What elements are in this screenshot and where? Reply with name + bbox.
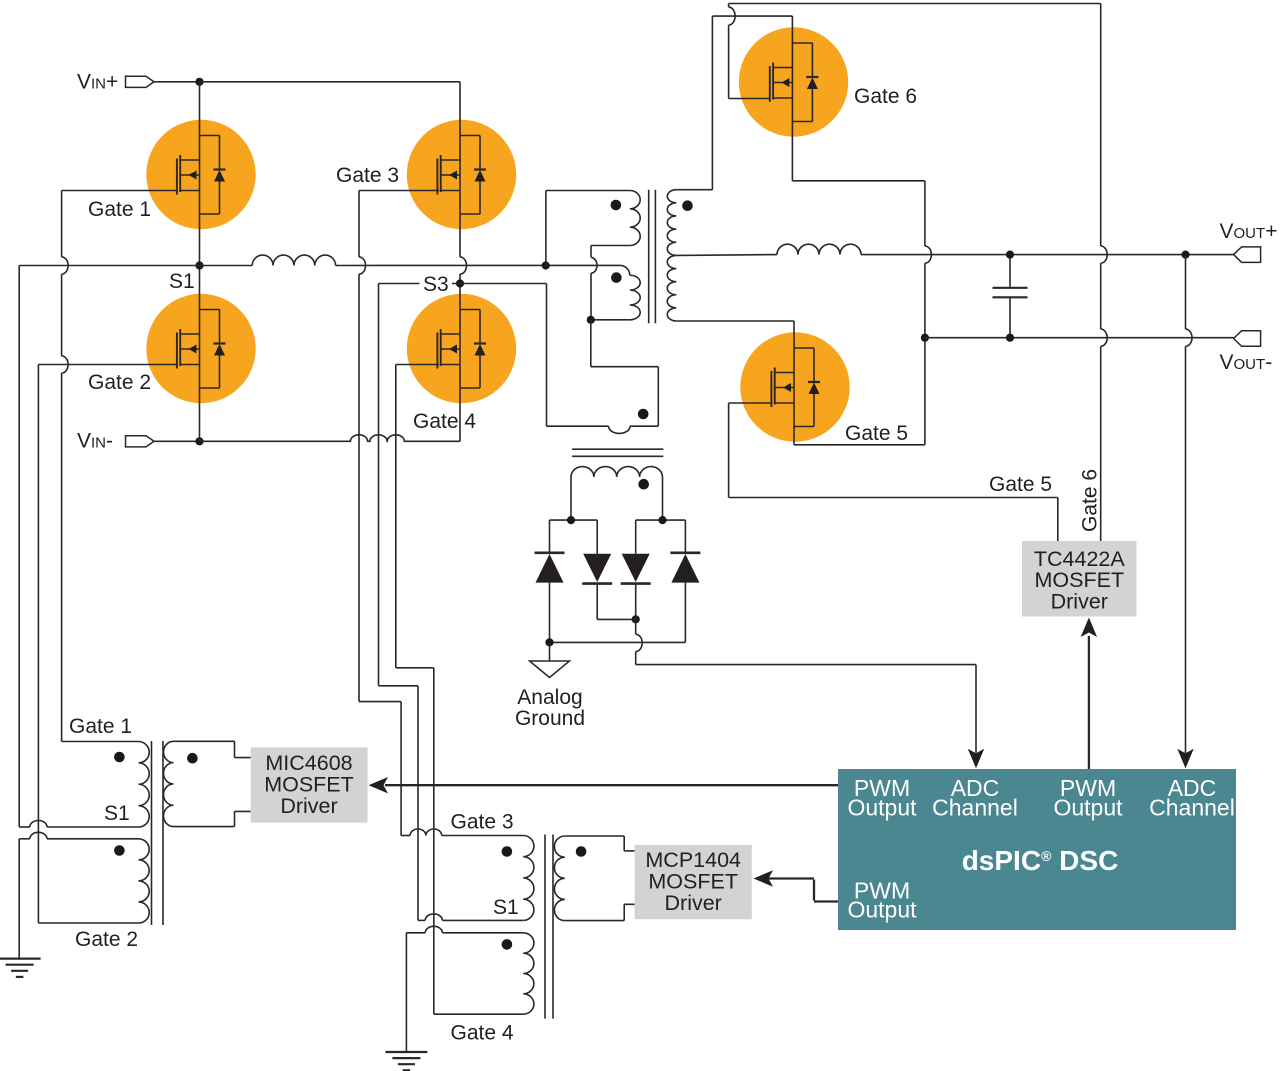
wire Gate4 gate lead [396, 364, 439, 366]
wire P1-P2 link (hop over main line) [590, 246, 592, 258]
wire S3 net vertical [378, 284, 380, 686]
wire T1 secondary bottom lead [174, 826, 235, 828]
svg-text:Driver: Driver [280, 794, 337, 818]
svg-text:VIN-: VIN- [77, 430, 113, 453]
wire primary P1 top vertical [545, 191, 547, 266]
winding T4 primary half-turn [609, 426, 630, 433]
arrow PWM to MCP1404 arrowhead [754, 870, 774, 886]
diode D3 (pointing down) [622, 554, 650, 582]
capacitor C1 top stub [1009, 255, 1011, 287]
node VIN- junction dot [195, 437, 203, 445]
node transformer primary junction dot [542, 261, 550, 269]
node analog ground junction dot [545, 638, 553, 646]
core T4 core lines [572, 448, 663, 450]
dot T4 primary phase dot [638, 409, 649, 420]
wire VIN+ rail to Gate3 drain [200, 81, 461, 83]
winding T4 secondary [571, 467, 662, 477]
svg-text:Output: Output [847, 795, 917, 821]
svg-text:dsPIC® DSC: dsPIC® DSC [962, 845, 1119, 876]
wire D3 output lead (hop over ground line) [635, 584, 637, 635]
winding T3 primary P2 [630, 275, 640, 320]
wire S1 line left segment [19, 265, 199, 267]
wire Gate3/Gate4 trunk lower [459, 274, 461, 441]
wire Gate1 net vertical (hops S1 and Gate2 lines) [61, 191, 63, 257]
svg-text:S1: S1 [104, 802, 130, 825]
wire D1 top lead [549, 520, 551, 553]
svg-text:VOUT+: VOUT+ [1220, 220, 1278, 243]
wire D1 bottom lead [549, 583, 551, 643]
transistor Q5 Gate 5 symbol [770, 371, 772, 407]
ground analog ground symbol [530, 661, 570, 678]
wire Gate5 trunk [793, 321, 795, 445]
wire Gate1 gate lead [62, 190, 177, 192]
wire T2 S1 line (hop over Gate4 net) [418, 919, 425, 921]
wire Gate4 net jog [396, 667, 434, 669]
node VIN+ junction dot [195, 78, 203, 86]
transistor Q4 Gate 4 symbol [436, 333, 438, 369]
svg-text:VOUT-: VOUT- [1220, 351, 1273, 374]
wire Gate2 net vertical [37, 365, 39, 924]
wire Gate3/Gate4 trunk upper [459, 82, 461, 257]
wire S1 to inductor [200, 265, 253, 267]
wire P2 bottom lead [591, 319, 630, 321]
wire T1 Gate2 primary top (hop over Gate2 net) [19, 838, 30, 840]
wire T4 secondary left lead [570, 477, 572, 520]
svg-text:Driver: Driver [665, 891, 722, 915]
wire S3 net jog [379, 685, 419, 687]
terminal VIN+ connector [126, 76, 155, 87]
inductor L1 [252, 255, 335, 265]
svg-text:Gate 3: Gate 3 [451, 811, 514, 834]
svg-text:Analog: Analog [517, 686, 582, 709]
wire CS primary bottom right [630, 425, 658, 427]
wire rectifier left rail [550, 519, 598, 521]
wire T4 secondary right lead [662, 477, 664, 520]
node S1 junction dot [195, 261, 203, 269]
svg-text:Gate 1: Gate 1 [69, 715, 132, 738]
inductor L2 [777, 244, 861, 254]
winding T1 secondary [164, 741, 174, 826]
node cap top junction dot [1006, 251, 1014, 259]
svg-text:MOSFET: MOSFET [1035, 568, 1125, 592]
transistor Q2 Gate 2 symbol [176, 333, 178, 369]
wire ground1 drop [18, 839, 20, 959]
winding T2 secondary [554, 836, 564, 921]
terminal VOUT+ connector [1234, 247, 1261, 263]
driver U2 MIC4608 box [251, 747, 368, 822]
ground ground symbol 1 [0, 957, 41, 959]
transistor Gate 4 MOSFET circle [407, 294, 516, 403]
dot T2 primary Gate3 phase dot [502, 846, 513, 857]
dot T3 secondary phase dot [682, 200, 693, 211]
wire VIN+ to node [154, 81, 200, 83]
wire Gate2 gate lead [38, 364, 177, 366]
wire rectifier bottom rail [550, 641, 686, 643]
wire T1 S1 line (hop over Gate2 net) [19, 826, 30, 828]
wire rectifier right rail [636, 519, 686, 521]
dot T3 P1 phase dot [611, 200, 622, 211]
terminal VOUT- connector [1234, 331, 1261, 347]
wire T2 secondary bottom lead [565, 920, 624, 922]
wire Gate5 drive route [728, 403, 730, 498]
capacitor C1 plates [993, 287, 1028, 289]
svg-text:MOSFET: MOSFET [264, 773, 354, 797]
svg-text:Gate 4: Gate 4 [451, 1022, 514, 1045]
dot T2 primary Gate4 phase dot [502, 939, 513, 950]
node S3 junction dot [456, 279, 464, 287]
transistor Gate 1 MOSFET circle [146, 120, 255, 229]
wire T2 Gate4 primary bottom [434, 1013, 523, 1015]
transistor Gate 2 MOSFET circle [146, 294, 255, 403]
wire secondary bottom lead [676, 320, 794, 322]
wire Gate6 source to VOUT- vertical [792, 180, 925, 182]
svg-text:Output: Output [847, 897, 917, 923]
svg-text:MCP1404: MCP1404 [645, 848, 741, 872]
winding T3 secondary lower [667, 255, 676, 321]
wire P1 bottom lead [591, 245, 630, 247]
wire S3 stub left part [379, 283, 420, 285]
node VOUT+ ADC junction dot [1181, 251, 1189, 259]
node right rail junction dot [658, 516, 666, 524]
svg-text:Ground: Ground [515, 707, 585, 730]
node D2-D3 junction dot [632, 615, 640, 623]
node P2 bottom junction dot [587, 316, 595, 324]
dot T1 secondary phase dot [187, 753, 198, 764]
wire P2 top lead (curve into winding) [620, 265, 630, 275]
ground ground symbol 2 [385, 1051, 427, 1053]
transistor Q3 Gate 3 symbol [436, 159, 438, 195]
winding T1 primary Gate2 [139, 839, 150, 923]
dot T3 P2 phase dot [611, 272, 622, 283]
wire Gate6 trunk [791, 16, 793, 181]
winding T3 secondary upper [667, 190, 676, 256]
svg-text:Channel: Channel [932, 795, 1018, 821]
wire D4 top lead [684, 520, 686, 553]
svg-text:S1: S1 [493, 896, 519, 919]
wire VIN- rail to Gate4 source (hops over gate bundle) [200, 435, 461, 442]
wire ADC channel 1 line [636, 664, 976, 666]
wire secondary top lead [676, 189, 712, 191]
core T3 transformer core lines [648, 190, 650, 324]
wire Gate3 net jog [359, 701, 401, 703]
wire T2 secondary top lead [565, 835, 624, 837]
wire S1 net far-left vertical [18, 266, 20, 828]
svg-text:Gate 6: Gate 6 [854, 85, 917, 108]
driver U3 MCP1404 box [635, 845, 752, 919]
wire D4 bottom lead [684, 583, 686, 643]
wire Gate3 net vertical (hop over main line) [358, 191, 360, 257]
wire T2 Gate3 primary top (hops over S3 and Gate4 nets) [401, 835, 410, 837]
dot T1 primary Gate2 phase dot [114, 845, 125, 856]
wire D3 top lead [635, 520, 637, 554]
svg-text:VIN+: VIN+ [77, 71, 118, 94]
diode D1 (pointing up) [536, 554, 564, 583]
transistor Gate 3 MOSFET circle [407, 120, 516, 229]
transistor Q6 Gate 6 symbol [769, 66, 771, 102]
wire Gate3 gate lead [359, 190, 439, 192]
wire secondary-top to Gate6 drain [711, 16, 713, 190]
wire VOUT+ line [861, 254, 1234, 256]
terminal VIN- connector [126, 436, 155, 447]
diode D2 (pointing down) [583, 554, 611, 582]
wire T1 Gate1 primary top [62, 741, 139, 743]
svg-text:Gate 6: Gate 6 [1079, 469, 1102, 532]
svg-text:Gate 3: Gate 3 [336, 164, 399, 187]
core T1 core lines [151, 741, 153, 925]
transistor Gate 5 MOSFET circle [740, 332, 849, 441]
wire Gate6 drive vertical (hops over VOUT lines) [1100, 4, 1102, 247]
svg-text:Channel: Channel [1149, 795, 1235, 821]
wire PWM to MCP1404 route [766, 877, 814, 879]
svg-text:Gate 2: Gate 2 [88, 371, 151, 394]
wire PWM to TC4422A shaft [1088, 636, 1090, 769]
wire CS primary bottom left [547, 425, 609, 427]
wire P2 to CS loop [590, 320, 592, 367]
wire primary P1 top lead [546, 190, 630, 192]
wire D2 top lead [596, 520, 598, 554]
svg-text:S1: S1 [169, 270, 195, 293]
arrow PWM to MIC4608 arrowhead [369, 777, 389, 793]
transistor Gate 6 MOSFET circle [739, 27, 848, 136]
capacitor C1 bottom stub [1009, 298, 1011, 338]
svg-text:Gate 5: Gate 5 [989, 473, 1052, 496]
svg-text:Gate 1: Gate 1 [88, 198, 151, 221]
wire Gate5 gate lead [729, 402, 773, 404]
dot T2 secondary phase dot [576, 846, 587, 857]
svg-text:Gate 5: Gate 5 [845, 422, 908, 445]
wire T2 Gate4 primary top (hop over Gate4 net) [406, 932, 425, 934]
wire inductor to transformer node [336, 264, 620, 266]
wire ground2 drop [405, 933, 407, 1052]
transistor Q1 Gate 1 symbol [176, 159, 178, 195]
wire Gate6 gate drive rail [729, 3, 1101, 5]
dot T4 secondary phase dot [638, 479, 649, 490]
wire D2 bottom lead [596, 584, 598, 620]
svg-text:Gate 4: Gate 4 [413, 410, 476, 433]
winding T3 primary P1 [630, 191, 640, 246]
wire S3 stub right part [452, 283, 547, 285]
wire T1 secondary top lead [174, 740, 235, 742]
svg-text:S3: S3 [423, 273, 449, 296]
wire S3 to CS loop vertical [546, 284, 548, 427]
dot T1 primary Gate1 phase dot [114, 752, 125, 763]
wire Gate4 net vertical [395, 365, 397, 668]
svg-text:MOSFET: MOSFET [648, 870, 738, 894]
wire Gate5 source to VOUT- [794, 444, 925, 446]
svg-text:Driver: Driver [1051, 590, 1108, 614]
svg-text:Output: Output [1053, 795, 1123, 821]
core T2 core lines [544, 835, 546, 1019]
wire ADC channel 2 vertical (hop over VOUT-) [1185, 255, 1187, 330]
driver U1 TC4422A box [1022, 541, 1137, 617]
wire Gate1/Gate2 trunk (VIN+ to VIN-) [199, 82, 201, 442]
arrow PWM to TC4422A arrowhead [1081, 618, 1097, 638]
diode D4 (pointing up) [671, 554, 699, 583]
arrow ADC channel 2 arrowhead [1177, 749, 1193, 769]
node cap bottom junction dot [1006, 334, 1014, 342]
controller dsPIC DSC box [838, 769, 1236, 930]
wire PWM to MIC4608 shaft [385, 784, 838, 786]
wire VIN- to node [154, 440, 200, 442]
wire T1 Gate2 primary bottom [38, 922, 138, 924]
svg-text:MIC4608: MIC4608 [265, 751, 352, 775]
svg-text:Gate 2: Gate 2 [75, 928, 138, 951]
winding T2 primary Gate4 [523, 933, 534, 1014]
winding T2 primary Gate3 [523, 836, 534, 921]
node left rail junction dot [567, 516, 575, 524]
wire analog ground stub [549, 642, 551, 661]
wire mid-tap to output inductor [676, 254, 777, 257]
arrow ADC channel 1 arrowhead [968, 749, 984, 769]
wire Gate6 gate lead route (hop over rail2) [728, 4, 730, 8]
wire VOUT- line [925, 337, 1234, 339]
winding T1 primary Gate1 [139, 742, 150, 828]
node Gate6 source VOUT- junction dot [921, 334, 929, 342]
wire trunk hop over main line [460, 257, 467, 274]
